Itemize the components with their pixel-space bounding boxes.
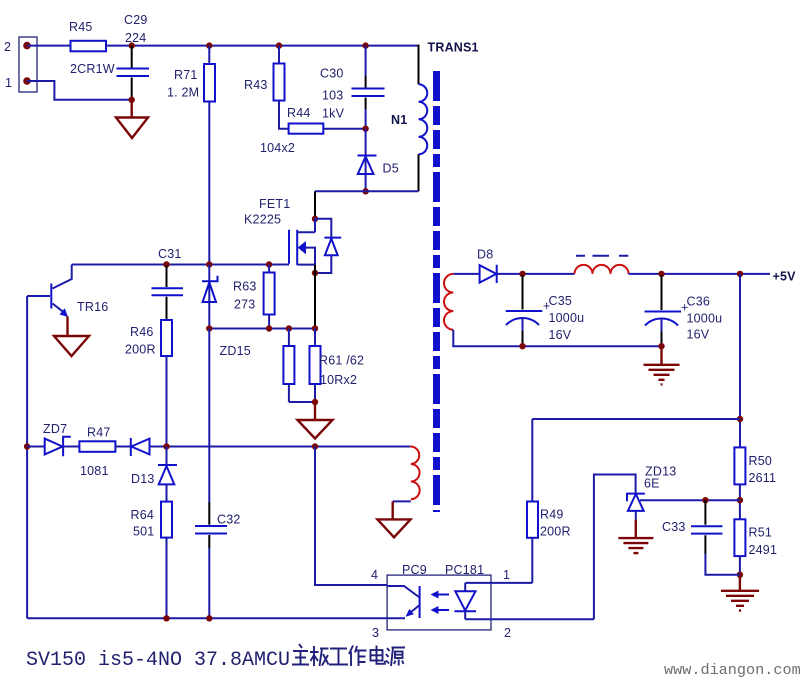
svg-text:PC9: PC9 (402, 563, 427, 577)
wire aux winding bottom (393, 500, 411, 502)
wire pin2 to R45 (27, 45, 71, 47)
svg-text:224: 224 (125, 31, 146, 45)
svg-text:1: 1 (5, 76, 12, 90)
ground below C29 (116, 100, 148, 138)
winding aux primary (410, 446, 419, 499)
svg-text:104x2: 104x2 (260, 141, 295, 155)
svg-text:C35: C35 (549, 294, 573, 308)
ground below TR16 (54, 317, 89, 357)
svg-text:+: + (543, 299, 551, 313)
wire R49 to opto pin1 (531, 538, 533, 583)
node mid rail ZD15 (206, 325, 212, 331)
wire TR16 base down (26, 296, 28, 618)
diode D13 (131, 447, 177, 487)
wire secondary bottom to rail (453, 330, 661, 347)
node C29 bottom (129, 97, 135, 103)
wire opto pin1 to R49 (465, 582, 532, 584)
caption hanzi dian (371, 646, 385, 664)
node C35 top (519, 271, 525, 277)
resistor R62 (310, 329, 365, 403)
svg-text:2: 2 (4, 40, 11, 54)
earth ground below ZD13 (618, 520, 653, 554)
transistor TR16 (27, 265, 108, 318)
wire top rail (106, 45, 419, 47)
svg-text:R51: R51 (749, 526, 773, 540)
wire inductor to +5V (629, 273, 771, 275)
svg-text:R63: R63 (233, 280, 257, 294)
svg-text:R49: R49 (540, 508, 564, 522)
ground below aux winding (377, 501, 410, 537)
wire D8 to inductor (497, 273, 575, 275)
svg-text:+: + (681, 301, 689, 315)
svg-text:C33: C33 (662, 520, 686, 534)
zener ZD15 (202, 265, 251, 359)
wire pin1 to C29 bottom (27, 81, 132, 100)
resistor R64 (131, 484, 173, 618)
svg-text:ZD15: ZD15 (220, 344, 251, 358)
caption hanzi zhu (292, 644, 309, 665)
node mid rail R62 (312, 325, 318, 331)
svg-text:2611: 2611 (749, 471, 777, 485)
connector J1 (4, 37, 37, 92)
diode D8 (477, 248, 497, 284)
resistor R47 (79, 426, 115, 479)
svg-text:D8: D8 (477, 248, 493, 262)
svg-text:3: 3 (372, 626, 379, 640)
wire rail447 segment b (63, 446, 79, 448)
node +5V branch (737, 271, 743, 277)
caption hanzi zuo (349, 646, 367, 667)
resistor R46 (125, 320, 172, 357)
wire R51 bottom (739, 556, 741, 575)
node C29 top (129, 42, 135, 48)
capacitor C36 (645, 275, 723, 345)
node bottom rail C32 (206, 615, 212, 621)
node ZD15 top (206, 261, 212, 267)
transformer core TRANS1 (428, 41, 479, 513)
resistor R49 (527, 502, 571, 539)
wire gate rail (72, 264, 289, 266)
resistor R43 (244, 46, 289, 129)
resistor R50 (734, 447, 776, 485)
node bottom rail R64 (163, 615, 169, 621)
wire N1 bottom lead (black) (418, 154, 420, 191)
caption hanzi gong (329, 649, 348, 665)
node C33 top (702, 497, 708, 503)
capacitor C33 (662, 500, 740, 575)
svg-text:R71: R71 (174, 68, 198, 82)
svg-text:N1: N1 (391, 113, 407, 127)
wire R46 down (166, 356, 168, 447)
svg-text:2491: 2491 (749, 543, 778, 557)
ground below R61/R62 (298, 402, 333, 439)
svg-text:R44: R44 (287, 106, 311, 120)
diode at D13 junction (131, 438, 150, 456)
node C30 top (362, 42, 368, 48)
svg-text:16V: 16V (549, 328, 572, 342)
svg-text:ZD7: ZD7 (43, 422, 67, 436)
svg-text:R64: R64 (131, 508, 155, 522)
optocoupler PC9 (371, 563, 511, 640)
resistor R44 (260, 106, 323, 155)
wire opto pin2 (465, 618, 594, 620)
node R44/D5 (362, 126, 368, 132)
pin 1 of connector (23, 77, 31, 85)
wire +5V down to R50 (739, 274, 741, 448)
node D5 bottom (362, 188, 368, 194)
svg-text:200R: 200R (540, 525, 571, 539)
svg-text:www.diangon.com: www.diangon.com (664, 661, 801, 679)
node R61/R62 bottom (312, 399, 318, 405)
svg-text:4: 4 (371, 568, 378, 582)
svg-text:FET1: FET1 (259, 197, 290, 211)
svg-text:PC181: PC181 (445, 563, 484, 577)
wire opto pin4 net (315, 447, 387, 586)
wire N1 top lead (black) (418, 45, 420, 85)
node rail447 right (312, 443, 318, 449)
wire N1 to FET drain (315, 190, 419, 192)
svg-text:D13: D13 (131, 472, 155, 486)
node R50 top (737, 416, 743, 422)
svg-text:1: 1 (503, 568, 510, 582)
node D13 top (163, 443, 169, 449)
node divider (737, 497, 743, 503)
node mid rail R63 (266, 325, 272, 331)
svg-text:K2225: K2225 (244, 213, 281, 227)
node R51 bottom (737, 572, 743, 578)
svg-text:6E: 6E (644, 477, 660, 491)
svg-text:C32: C32 (217, 513, 241, 527)
svg-text:SV150 is5-4NO 37.8AMCU: SV150 is5-4NO 37.8AMCU (26, 649, 290, 672)
node ZD7 rail left (24, 443, 30, 449)
capacitor C30 (320, 46, 385, 129)
svg-text:273: 273 (234, 298, 255, 312)
resistor R51 (734, 519, 777, 557)
zener ZD13 (627, 465, 676, 520)
svg-text:R46: R46 (130, 325, 154, 339)
wire opto pin2 to ZD13 (594, 475, 636, 620)
node R63 top (266, 261, 272, 267)
diode D5 (358, 129, 399, 192)
wire R44 to C30 node (323, 128, 365, 130)
svg-text:C30: C30 (320, 67, 344, 81)
svg-text:501: 501 (133, 525, 154, 539)
node R43 top (276, 42, 282, 48)
wire FET source down (black) (314, 265, 316, 329)
wire rail447 segment d (150, 446, 411, 448)
svg-text:R50: R50 (749, 454, 773, 468)
node C36 bottom (658, 343, 664, 349)
wire mid rail (209, 328, 315, 330)
node C36 top (658, 271, 664, 277)
svg-text:1000u: 1000u (687, 312, 723, 326)
node mid rail R61 (286, 325, 292, 331)
earth ground below R51 (721, 575, 759, 611)
wire secondary top to D8 (453, 273, 479, 275)
svg-text:1kV: 1kV (322, 107, 345, 121)
resistor R71 (167, 46, 215, 265)
svg-text:10Rx2: 10Rx2 (320, 373, 357, 387)
capacitor C35 (506, 275, 584, 345)
pin 2 of connector (23, 42, 31, 50)
resistor R61 (283, 329, 315, 403)
wire bottom rail (27, 617, 405, 619)
wire rail447 segment a (27, 446, 45, 448)
svg-text:R43: R43 (244, 78, 268, 92)
svg-text:1000u: 1000u (549, 311, 585, 325)
resistor R45 (69, 20, 115, 76)
node C31 top (163, 261, 169, 267)
svg-text:103: 103 (322, 89, 343, 103)
svg-text:200R: 200R (125, 343, 156, 357)
node FET drain (312, 216, 318, 222)
caption hanzi yuan (386, 648, 405, 667)
inductor L1 (575, 256, 629, 274)
svg-text:R61 /62: R61 /62 (319, 354, 364, 368)
svg-text:C29: C29 (124, 13, 148, 27)
svg-text:1. 2M: 1. 2M (167, 86, 199, 100)
svg-text:TRANS1: TRANS1 (428, 41, 479, 55)
zener ZD7 (43, 422, 71, 456)
wire zener divider link (640, 499, 740, 501)
svg-text:R47: R47 (87, 426, 111, 440)
svg-text:R45: R45 (69, 20, 93, 34)
svg-text:C36: C36 (687, 295, 711, 309)
svg-text:2: 2 (504, 626, 511, 640)
caption hanzi ban (310, 646, 329, 666)
svg-text:TR16: TR16 (77, 300, 108, 314)
capacitor C31 (152, 247, 184, 320)
svg-text:1081: 1081 (80, 464, 109, 478)
capacitor C32 (195, 329, 241, 619)
svg-text:+5V: +5V (773, 270, 797, 284)
svg-text:D5: D5 (383, 162, 399, 176)
svg-text:16V: 16V (687, 328, 710, 342)
node FET source (312, 270, 318, 276)
wire R49 feedback top (532, 419, 740, 502)
earth ground below C36 (644, 346, 680, 384)
node C35 bottom (519, 343, 525, 349)
winding N1 (391, 84, 427, 154)
winding secondary (444, 274, 453, 330)
transistor FET1 (244, 197, 341, 273)
node R71 top (206, 42, 212, 48)
svg-text:C31: C31 (158, 247, 182, 261)
resistor R63 (233, 265, 275, 329)
wire R50 to R51 (739, 484, 741, 519)
svg-text:2CR1W: 2CR1W (70, 62, 115, 76)
capacitor C29 (117, 13, 150, 100)
wire rail447 segment c (115, 446, 130, 448)
